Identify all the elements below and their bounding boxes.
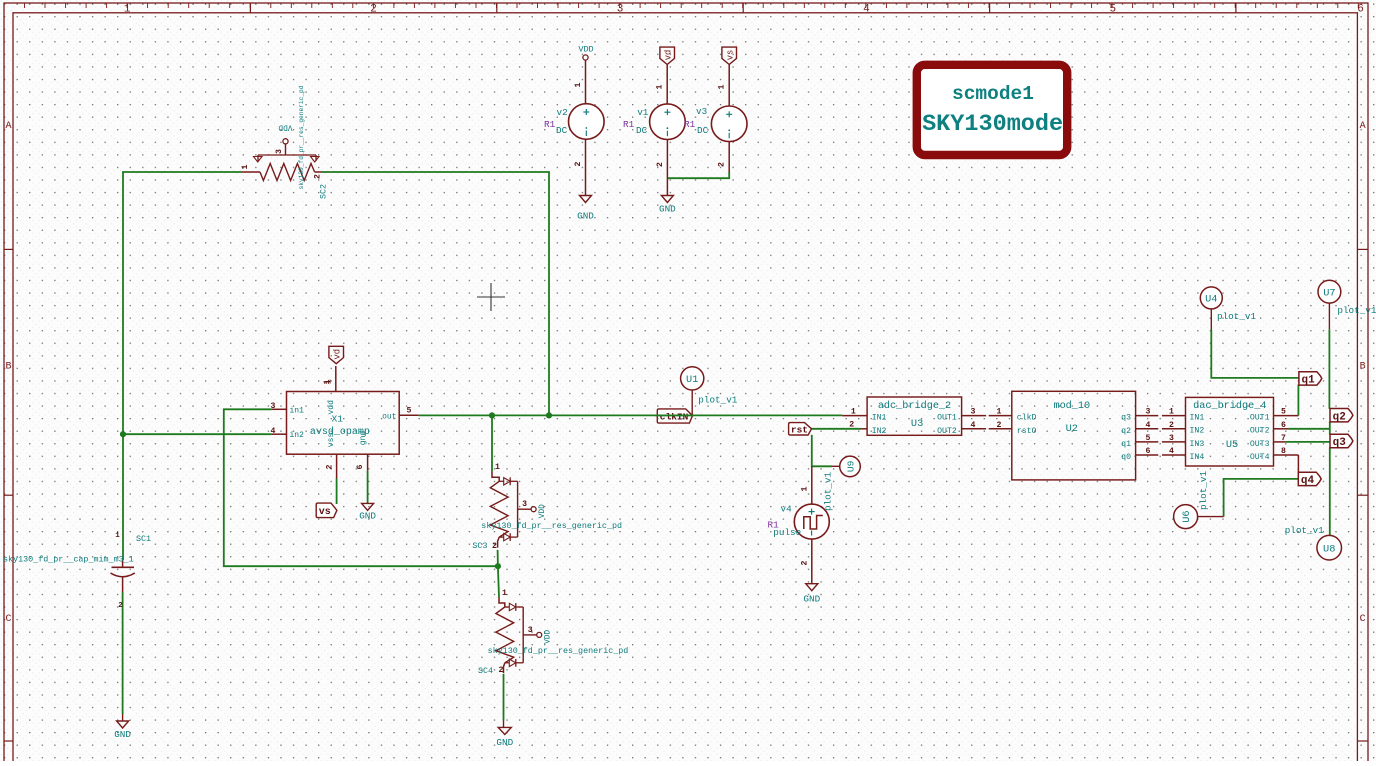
svg-text:7: 7 — [1281, 434, 1286, 443]
cursor crosshair — [477, 283, 505, 311]
svg-text:IN4: IN4 — [1190, 453, 1205, 462]
svg-text:v2: v2 — [557, 107, 568, 118]
wire dac OUT1 up to q1 — [1297, 384, 1299, 415]
svg-text:VDD: VDD — [539, 504, 547, 518]
label circle U6 plot_v1 — [1174, 471, 1224, 529]
svg-text:VDD: VDD — [278, 123, 292, 131]
svg-text:IN3: IN3 — [1190, 440, 1205, 449]
net label clkIN on out bus — [655, 409, 694, 423]
svg-text:SC4: SC4 — [478, 666, 493, 676]
wire q3 down to U8 plot — [1329, 447, 1331, 535]
svg-text:4: 4 — [1169, 447, 1174, 456]
svg-text:2: 2 — [492, 542, 497, 551]
svg-text:GND: GND — [803, 594, 820, 605]
svg-text:R1: R1 — [684, 119, 696, 130]
label circle U4 plot_v1 — [1200, 287, 1256, 330]
wire cap SC1 bottom to ground — [122, 592, 124, 714]
svg-text:mod_10: mod_10 — [1053, 400, 1090, 412]
wire mod outputs to dac inputs — [1162, 408, 1186, 456]
svg-text:IN2: IN2 — [1190, 427, 1205, 436]
voltage source v4 pulse — [768, 466, 830, 604]
svg-text:1: 1 — [574, 82, 583, 87]
svg-text:v1: v1 — [637, 107, 649, 118]
label circle U9 plot_v1 — [822, 456, 860, 511]
svg-text:sky130_fd_pr__res_generic_pd: sky130_fd_pr__res_generic_pd — [481, 521, 622, 531]
svg-text:5: 5 — [1281, 408, 1286, 417]
svg-text:clkIN: clkIN — [660, 411, 689, 422]
svg-text:q0: q0 — [1121, 453, 1131, 462]
svg-text:v4: v4 — [781, 503, 793, 514]
resistor SC3 sky130_fd_pr__res_generic_pd (vertical) — [472, 463, 622, 551]
svg-text:gnd: gnd — [359, 431, 368, 446]
svg-text:2: 2 — [325, 464, 334, 469]
wire U7 plot down to q2 — [1328, 329, 1330, 409]
svg-text:GND: GND — [359, 511, 376, 522]
label circle U1 plot_v1 — [681, 367, 738, 416]
svg-text:1: 1 — [495, 463, 500, 472]
svg-text:OUT1: OUT1 — [937, 414, 957, 423]
svg-text:4: 4 — [1146, 421, 1151, 430]
output flag q3 — [1330, 434, 1353, 449]
IC U5 dac_bridge_4 — [1186, 397, 1299, 472]
svg-text:in1: in1 — [290, 406, 305, 415]
svg-text:plot_v1: plot_v1 — [1337, 305, 1376, 316]
svg-text:1: 1 — [851, 408, 856, 417]
svg-text:U1: U1 — [686, 374, 698, 386]
output flag q4 — [1298, 472, 1321, 487]
svg-text:IN2: IN2 — [872, 427, 887, 436]
svg-text:2: 2 — [574, 161, 583, 166]
svg-text:A: A — [1360, 121, 1366, 132]
svg-text:U5: U5 — [1226, 439, 1238, 451]
svg-text:3: 3 — [1169, 434, 1174, 443]
svg-text:SKY130mode: SKY130mode — [922, 111, 1063, 138]
svg-text:3: 3 — [275, 149, 284, 154]
svg-text:U8: U8 — [1323, 543, 1335, 555]
svg-text:U7: U7 — [1323, 287, 1335, 299]
svg-text:6: 6 — [1357, 4, 1364, 16]
svg-text:SC3: SC3 — [472, 541, 487, 551]
svg-text:1: 1 — [801, 486, 810, 491]
svg-text:adc_bridge_2: adc_bridge_2 — [878, 400, 951, 412]
svg-text:C: C — [1360, 614, 1366, 625]
svg-text:U2: U2 — [1066, 423, 1078, 435]
output flag q1 — [1299, 372, 1322, 387]
svg-text:2: 2 — [656, 162, 665, 167]
svg-text:1: 1 — [718, 84, 727, 89]
svg-text:vd: vd — [332, 349, 342, 360]
svg-text:B: B — [1360, 362, 1366, 373]
net label vs at op-amp vss — [316, 503, 337, 518]
ground at op-amp gnd pin — [359, 503, 376, 521]
wire out bus down to SC3 pin 1 — [491, 415, 493, 471]
wire in2 net from junction to op-amp in2 — [123, 433, 271, 435]
svg-text:rst: rst — [791, 424, 808, 435]
wire op-amp gnd pin to ground — [367, 471, 369, 504]
svg-text:vdd: vdd — [327, 400, 336, 415]
svg-text:IN1: IN1 — [1190, 414, 1205, 423]
svg-text:4: 4 — [971, 421, 976, 430]
svg-text:1: 1 — [323, 379, 332, 384]
wire from SC2 right end to out-bus corner — [322, 172, 549, 415]
ground below SC1 — [114, 714, 131, 740]
svg-text:6: 6 — [356, 464, 365, 469]
label circle U8 plot_v1 — [1285, 525, 1342, 560]
svg-text:q3: q3 — [1121, 414, 1131, 423]
svg-text:VDD: VDD — [578, 45, 593, 55]
svg-text:pulse: pulse — [773, 527, 801, 538]
svg-text:6: 6 — [1146, 447, 1151, 456]
svg-text:3: 3 — [528, 626, 533, 635]
IC U3 adc_bridge_2 — [842, 397, 986, 436]
svg-text:U3: U3 — [911, 418, 923, 430]
svg-text:OUT2: OUT2 — [1250, 427, 1270, 436]
svg-text:X1: X1 — [332, 414, 344, 425]
net label rst — [789, 423, 812, 436]
svg-text:2: 2 — [801, 560, 810, 565]
svg-text:GND: GND — [114, 729, 131, 740]
svg-text:2: 2 — [118, 602, 123, 610]
svg-text:GND: GND — [577, 211, 594, 222]
svg-text:1: 1 — [1169, 408, 1174, 417]
capacitor SC1 sky130_fd_pr__cap_mim_m3_1 — [3, 532, 151, 610]
node junction at SC2 feedback tee — [546, 412, 552, 418]
svg-text:OUT4: OUT4 — [1250, 453, 1270, 462]
svg-text:1: 1 — [115, 532, 120, 540]
wire rst flag down to v4/U9 tee — [812, 435, 832, 466]
svg-text:B: B — [5, 362, 11, 373]
svg-text:OUT3: OUT3 — [1250, 440, 1270, 449]
svg-text:U9: U9 — [846, 460, 857, 472]
node junction at SC3 branch — [489, 412, 495, 418]
output flag q2 — [1330, 409, 1353, 424]
svg-text:VDD: VDD — [545, 630, 553, 644]
svg-text:SC1: SC1 — [136, 534, 151, 544]
svg-text:IN1: IN1 — [872, 414, 887, 423]
wire q2 to q3 riser — [1329, 422, 1331, 435]
wire U6 plot to q4 — [1224, 479, 1298, 517]
svg-text:q3: q3 — [1333, 437, 1347, 449]
wire SC4 pin2 down to ground — [503, 674, 505, 721]
svg-text:R1: R1 — [544, 119, 556, 130]
svg-text:vs: vs — [319, 507, 331, 518]
svg-text:GND: GND — [496, 737, 513, 748]
svg-text:v3: v3 — [696, 106, 707, 117]
wire VDD net: SC2 left lead down to in2/cap junction — [123, 172, 242, 560]
net label vd at op-amp vdd — [323, 346, 344, 384]
svg-text:2: 2 — [1169, 421, 1174, 430]
svg-text:2: 2 — [718, 162, 727, 167]
svg-text:3: 3 — [617, 4, 624, 16]
IC U2 mod_10 — [1012, 391, 1159, 480]
ground below SC4 — [496, 721, 513, 749]
svg-text:q4: q4 — [1301, 475, 1315, 487]
svg-text:rstO: rstO — [1017, 427, 1037, 436]
wire SC3 pin2 to junction — [497, 550, 499, 566]
svg-text:3: 3 — [522, 500, 527, 509]
svg-text:plot_v1: plot_v1 — [1217, 311, 1256, 322]
svg-text:3: 3 — [271, 402, 276, 411]
svg-text:sky130_fd_pr__res_generic_pd: sky130_fd_pr__res_generic_pd — [488, 646, 629, 656]
voltage source v1 with vd flag — [623, 47, 685, 214]
wire dac OUT3 to q3 — [1286, 441, 1330, 443]
svg-text:scmode1: scmode1 — [952, 83, 1034, 105]
svg-text:2: 2 — [370, 4, 377, 16]
svg-text:U4: U4 — [1205, 294, 1217, 306]
voltage source v2 with VDD — [544, 45, 604, 222]
svg-text:in2: in2 — [290, 431, 305, 440]
wire in1 feedback net — [224, 409, 498, 566]
wire dac OUT4 down to q4 — [1297, 455, 1299, 473]
svg-text:vs: vs — [725, 50, 735, 61]
svg-text:U6: U6 — [1181, 510, 1193, 522]
svg-text:q1: q1 — [1121, 440, 1131, 449]
wire junction down to SC4 pin 1 — [498, 566, 499, 597]
svg-text:3: 3 — [971, 408, 976, 417]
wire rst net to adc IN2 — [812, 428, 861, 430]
svg-text:2: 2 — [314, 174, 323, 179]
resistor SC2 sky130_fd_pr__res_generic_pd (horizontal) — [241, 85, 329, 199]
node junction at in2/cap tee — [120, 431, 126, 437]
op-amp X1 avsd_opamp — [271, 366, 419, 479]
svg-text:1: 1 — [502, 589, 507, 598]
svg-text:1: 1 — [241, 164, 250, 169]
svg-text:R1: R1 — [623, 119, 635, 130]
wire out net / clkIN bus — [419, 414, 843, 416]
svg-text:plot_v1: plot_v1 — [1285, 525, 1324, 536]
svg-text:out: out — [382, 412, 396, 421]
svg-text:4: 4 — [271, 427, 276, 436]
svg-text:4: 4 — [863, 4, 870, 16]
voltage source v3 with vs flag — [684, 47, 747, 172]
wire v3 bottom to v1 gnd net — [667, 172, 729, 178]
svg-text:plot_v1: plot_v1 — [822, 472, 833, 511]
wire op-amp vss to vs flag — [336, 479, 338, 505]
svg-text:GND: GND — [659, 204, 676, 215]
wire U4 plot to q1 — [1211, 330, 1299, 378]
svg-text:q1: q1 — [1302, 375, 1316, 387]
svg-text:2: 2 — [499, 666, 504, 675]
svg-text:sky130_fd_pr__res_generic_pd: sky130_fd_pr__res_generic_pd — [298, 85, 305, 189]
svg-text:2: 2 — [997, 421, 1002, 430]
svg-text:5: 5 — [1109, 4, 1116, 16]
svg-text:8: 8 — [1281, 447, 1286, 456]
svg-text:6: 6 — [1281, 421, 1286, 430]
svg-text:5: 5 — [407, 406, 412, 415]
scmode1 SKY130mode title box — [917, 65, 1067, 155]
wire dac OUT2 to q2 riser — [1288, 428, 1329, 430]
svg-text:vd: vd — [663, 50, 673, 61]
svg-text:plot_v1: plot_v1 — [1198, 471, 1209, 510]
svg-text:DC: DC — [556, 125, 568, 136]
node junction between SC3 and SC4 — [495, 563, 501, 569]
svg-text:q2: q2 — [1333, 411, 1346, 423]
svg-text:5: 5 — [1146, 434, 1151, 443]
svg-text:DC: DC — [697, 125, 709, 136]
svg-text:OUT1: OUT1 — [1250, 414, 1270, 423]
svg-text:clkD: clkD — [1017, 413, 1037, 423]
svg-text:DC: DC — [636, 125, 648, 136]
svg-text:SC2: SC2 — [319, 184, 329, 199]
label circle U7 plot_v1 — [1318, 280, 1376, 329]
svg-text:A: A — [5, 121, 11, 132]
svg-text:1: 1 — [656, 84, 665, 89]
svg-text:3: 3 — [1146, 408, 1151, 417]
svg-text:vss: vss — [327, 433, 336, 448]
svg-text:1: 1 — [124, 4, 131, 16]
resistor SC4 sky130_fd_pr__res_generic_pd (vertical) — [478, 589, 628, 676]
svg-text:q2: q2 — [1121, 427, 1131, 436]
svg-text:1: 1 — [997, 408, 1002, 417]
wire adc OUT to mod inputs — [989, 408, 1012, 430]
svg-text:dac_bridge_4: dac_bridge_4 — [1193, 400, 1266, 412]
svg-text:C: C — [5, 614, 11, 625]
svg-text:OUT2: OUT2 — [937, 427, 957, 436]
svg-text:plot_v1: plot_v1 — [698, 394, 737, 405]
svg-text:2: 2 — [849, 421, 854, 430]
svg-text:sky130_fd_pr__cap_mim_m3_1: sky130_fd_pr__cap_mim_m3_1 — [3, 555, 134, 565]
